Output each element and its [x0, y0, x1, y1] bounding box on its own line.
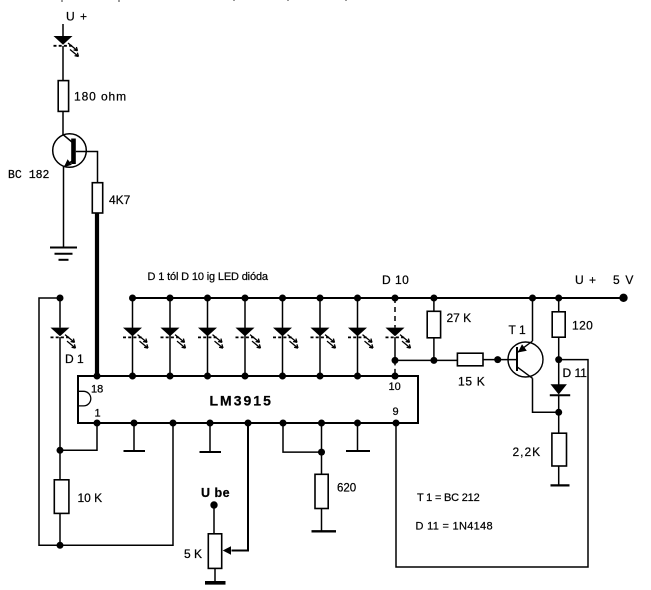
wire pin (283) to 620 junction [283, 423, 322, 452]
svg-text:U +: U + [66, 10, 88, 24]
node LED col 5 IC [279, 373, 286, 380]
node LED col 2 bus [167, 295, 174, 302]
ground (pin 134) [124, 450, 146, 452]
ground (pin 210) [200, 451, 222, 453]
potentiometer 5K wiper arrow [223, 546, 231, 554]
svg-text:U be: U be [201, 486, 230, 500]
wire 10K to bottom junction [59, 513, 61, 545]
wire LED col 1 [132, 298, 134, 376]
node pin 10 top [392, 373, 399, 380]
ground (620) [312, 530, 337, 532]
terminal node U+ 5V (bus right end) [619, 294, 627, 302]
wire to LED D1 [59, 298, 61, 328]
svg-text:LM3915: LM3915 [210, 393, 273, 409]
svg-text:5 V: 5 V [613, 273, 635, 287]
svg-text:120: 120 [572, 319, 593, 333]
node LED col 3 bus [204, 295, 211, 302]
LED D7 [311, 328, 336, 349]
resistor 15K (horizontal) [457, 353, 483, 366]
node T1 emitter bus [529, 295, 536, 302]
LED D10 [386, 328, 411, 349]
node LED col 5 bus [279, 295, 286, 302]
wire D1 cathode down [59, 337, 61, 450]
wire LED col 2 [169, 298, 171, 376]
wire LED to 180 ohm [62, 46, 64, 81]
wire LED col 7 [357, 298, 359, 376]
LED D8 [348, 328, 373, 349]
wire U be to 5K pot [213, 505, 215, 534]
ground (2.2K) [551, 484, 570, 486]
wire 27K to junction [433, 338, 435, 361]
resistor 27K [427, 311, 440, 338]
svg-text:4K7: 4K7 [109, 193, 131, 207]
svg-text:D 10: D 10 [382, 273, 409, 287]
wire T1 collector to D11 junction [533, 378, 559, 412]
ground (5K) [205, 581, 226, 585]
LED D4 [198, 328, 223, 349]
svg-text:27 K: 27 K [447, 311, 472, 325]
node 27K top (bus) [430, 295, 437, 302]
svg-text:180 ohm: 180 ohm [74, 90, 127, 104]
wire 620 to ground [321, 509, 323, 532]
svg-text:5 K: 5 K [184, 547, 202, 561]
potentiometer 5K body [208, 534, 221, 569]
wire pin (134) to ground [133, 423, 135, 451]
node D11/2.2K junction [555, 409, 562, 416]
wire D11 to 2.2K junction [558, 396, 560, 412]
svg-text:18: 18 [91, 384, 103, 396]
svg-text:BC 182: BC 182 [8, 169, 50, 182]
wire 120 to D11 [558, 337, 560, 384]
wire pin 1 to junction [60, 424, 97, 451]
node bottom-left junction [57, 542, 64, 549]
node pin (x=173) bottom [170, 420, 177, 427]
svg-text:9: 9 [393, 406, 399, 418]
wire T1 emitter to bus [532, 298, 534, 341]
LED D2 [123, 328, 148, 349]
node LED col 1 bus [129, 295, 136, 302]
node LED col 7 bus [354, 295, 361, 302]
resistor 4K7 [92, 183, 102, 213]
wire bus to 27K [433, 298, 435, 312]
node pin (x=357.5) bottom [354, 420, 361, 427]
LED D5 [236, 328, 261, 349]
svg-text:D 11: D 11 [563, 366, 588, 380]
thick wire 4K7 to pin 18 [95, 213, 99, 376]
svg-text:1: 1 [95, 408, 101, 420]
LED D1 [51, 328, 76, 349]
svg-text:10: 10 [389, 381, 401, 393]
transistor T1 [508, 341, 543, 378]
node D1 anode [57, 295, 64, 302]
wire pin (357.5) to ground [357, 423, 359, 451]
IC LM3915 [78, 376, 418, 423]
LED D6 [273, 328, 298, 349]
wire pin 9 loop to D11 junction [396, 360, 588, 567]
node LED col 6 IC [317, 373, 324, 380]
svg-text:D 1 tól D 10 ig LED dióda: D 1 tól D 10 ig LED dióda [148, 271, 269, 283]
svg-text:T 1 = BC 212: T 1 = BC 212 [417, 492, 480, 504]
svg-text:2,2K: 2,2K [513, 445, 542, 459]
node LED col 3 IC [204, 373, 211, 380]
node D1/10K/pin1 junction [57, 447, 64, 454]
node LED col 4 bus [242, 295, 249, 302]
node pin 9 bottom [393, 420, 400, 427]
wire 15K to T1 base [483, 359, 517, 361]
wire pin (210) to ground [209, 423, 211, 452]
transistor BC182 [53, 134, 87, 168]
wire bus to 120 [558, 298, 560, 312]
resistor 180 ohm [58, 81, 68, 112]
resistor 2.2K [552, 433, 567, 466]
node LED col 4 IC [242, 373, 249, 380]
svg-text:10 K: 10 K [78, 491, 103, 505]
node pin (x=321.5) bottom [318, 420, 325, 427]
wire D10 to pin 10 (dashed) [394, 360, 396, 376]
svg-text:T 1: T 1 [509, 323, 526, 337]
node 27K bottom junction [430, 357, 437, 364]
LED D3 [161, 328, 186, 349]
node D10 bus [392, 295, 399, 302]
LED (top, in series with 180 ohm) [54, 36, 79, 57]
wire pin (321.5) down [321, 423, 323, 475]
svg-text:D 11 = 1N4148: D 11 = 1N4148 [416, 521, 493, 533]
IC notch [78, 391, 91, 406]
node 120/D11/pin9 junction [555, 356, 562, 363]
wire D10 anode (dashed) [394, 298, 396, 328]
node U be input terminal [210, 501, 217, 508]
svg-text:U +: U + [575, 273, 597, 287]
wire D10 cathode [394, 337, 396, 360]
wire junction to 2.2K [558, 412, 560, 433]
diode D11 [550, 384, 570, 395]
ground (below BC182) [50, 248, 77, 260]
node 120 top (bus) [555, 295, 562, 302]
node pin 1 bottom [94, 420, 101, 427]
wire 5K bottom to ground [214, 568, 216, 581]
wire 2.2K to ground [558, 466, 560, 485]
cropped text remnants top edge [61, 0, 347, 2]
resistor 120 [552, 312, 565, 337]
node LED col 2 IC [167, 373, 174, 380]
node 620 junction [318, 449, 325, 456]
wire transistor base to 4K7 [76, 152, 98, 184]
node LED col 7 IC [354, 373, 361, 380]
node D10/27K junction [392, 357, 399, 364]
wire 180 ohm to transistor collector [62, 111, 64, 135]
wire transistor emitter to ground [63, 167, 65, 248]
wire LED col 3 [207, 298, 209, 376]
node T1 base wire [494, 356, 501, 363]
wire LED col 4 [244, 298, 246, 376]
wire pin (248) to pot wiper [232, 423, 249, 551]
svg-text:D 1: D 1 [65, 352, 84, 366]
wire LED col 6 [319, 298, 321, 376]
node pin (x=210) bottom [207, 420, 214, 427]
node pin 18 top [94, 373, 101, 380]
resistor 10K [54, 480, 69, 514]
node pin (x=283) bottom [280, 420, 287, 427]
node pin (x=134) bottom [131, 420, 138, 427]
svg-text:620: 620 [337, 483, 356, 495]
wire U+ to LED [62, 24, 64, 36]
resistor 620 [315, 474, 328, 508]
svg-text:15 K: 15 K [458, 375, 486, 389]
wire D10 junction to 15K [395, 359, 457, 361]
node pin (x=248) bottom [245, 420, 252, 427]
left rail wire [39, 298, 173, 545]
wire LED col 5 [282, 298, 284, 376]
wire junction to 10K [59, 450, 61, 480]
node LED col 1 IC [129, 373, 136, 380]
node LED col 6 bus [317, 295, 324, 302]
top supply bus wire [133, 297, 625, 299]
ground (pin 357.5) [346, 450, 370, 452]
